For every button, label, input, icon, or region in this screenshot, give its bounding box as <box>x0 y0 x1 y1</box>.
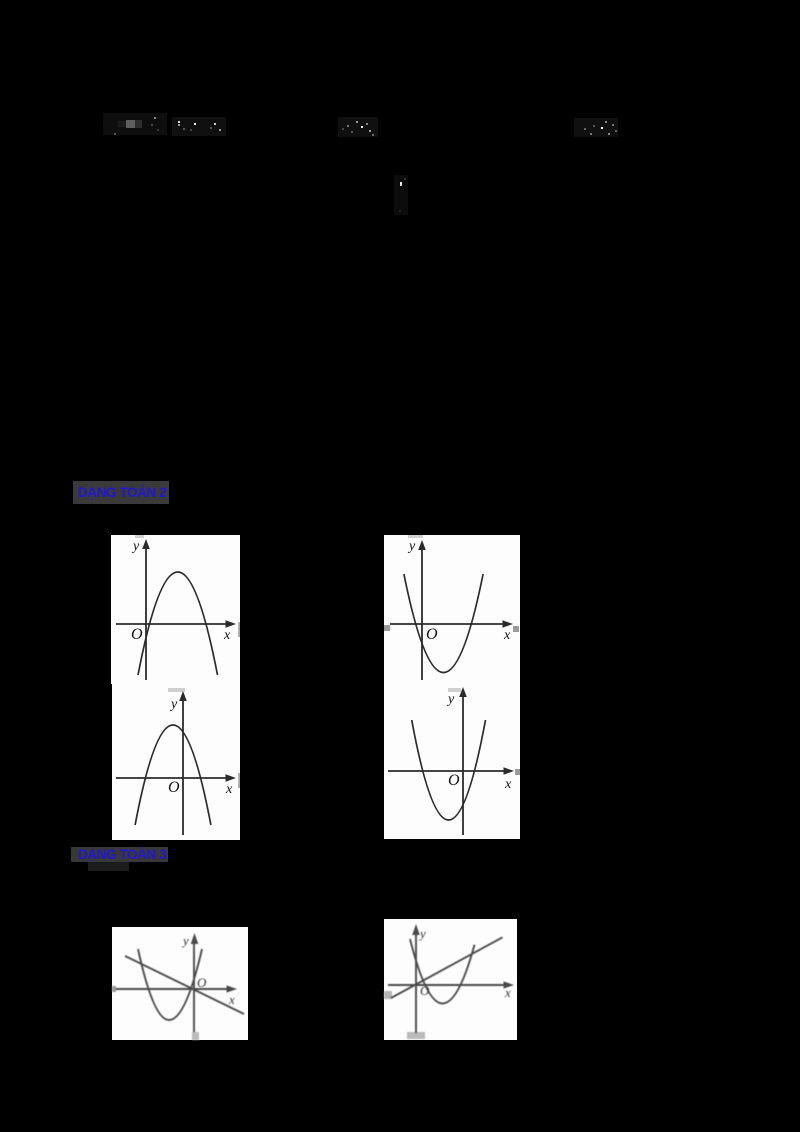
parabola opening up <box>410 939 475 1004</box>
svg-text:x: x <box>223 628 231 643</box>
svg-text:x: x <box>503 628 511 643</box>
fraction bright dots <box>400 182 402 184</box>
gray strip above y label <box>408 535 423 538</box>
gray strip above y label <box>168 688 185 692</box>
formula 2 dim smudge <box>338 117 378 137</box>
x-axis <box>116 777 228 779</box>
gray block bottom <box>192 1032 199 1040</box>
y-axis <box>145 544 147 680</box>
parabola opening down <box>138 572 218 675</box>
formula 1 dim smudge <box>103 113 167 135</box>
gray mark right <box>513 626 519 632</box>
x-axis <box>388 770 506 772</box>
right edge sliver <box>238 622 240 637</box>
graph box R1L <box>111 535 240 684</box>
formula 1 highlight block A <box>118 121 126 127</box>
svg-text:y: y <box>169 697 178 712</box>
parabola opening down <box>135 725 211 825</box>
svg-text:y: y <box>181 933 189 948</box>
svg-text:O: O <box>420 983 430 998</box>
graph box R1R <box>384 535 520 684</box>
formula 1 speckles <box>114 133 116 135</box>
y-axis <box>193 939 195 1032</box>
formula 2 speckles <box>347 125 349 127</box>
svg-text:O: O <box>131 626 143 643</box>
svg-text:O: O <box>197 975 207 990</box>
svg-text:y: y <box>418 926 426 941</box>
x-axis <box>116 623 228 625</box>
formula 3 speckles <box>584 128 586 130</box>
parabola opening up <box>404 574 483 673</box>
svg-text:O: O <box>448 772 460 789</box>
formula 1 highlight block B <box>126 120 135 128</box>
graph box R3L <box>112 927 248 1040</box>
y-axis <box>182 696 184 835</box>
x-axis <box>116 988 231 990</box>
y-axis <box>421 545 423 680</box>
right edge sliver <box>238 773 240 788</box>
svg-text:O: O <box>168 779 180 796</box>
y-axis <box>415 931 417 1033</box>
svg-text:y: y <box>131 539 140 554</box>
heading 1 block <box>73 481 169 504</box>
heading 2 text <box>78 846 166 863</box>
svg-text:O: O <box>426 626 438 643</box>
gray mark right edge <box>515 769 520 775</box>
svg-text:y: y <box>407 539 416 554</box>
graph box R3R <box>384 919 517 1040</box>
x-axis <box>390 623 505 625</box>
svg-text:x: x <box>225 782 233 797</box>
svg-text:x: x <box>504 985 511 1000</box>
descending line <box>125 956 244 1014</box>
formula 3 dim smudge <box>574 118 618 137</box>
ascending line <box>391 937 503 998</box>
fraction dim smudge <box>394 175 408 215</box>
svg-text:x: x <box>228 992 235 1007</box>
graph box R2L <box>112 684 240 840</box>
heading 2 block <box>71 847 168 862</box>
gray mark left edge on axis <box>112 986 116 992</box>
heading 2 sub-bar <box>88 862 129 871</box>
formula 1 highlight block C <box>135 120 142 128</box>
x-axis <box>388 984 507 986</box>
gray strip above y label <box>448 688 461 692</box>
gray block bottom <box>407 1032 425 1039</box>
graph box R2R <box>384 682 520 839</box>
gray mark left edge <box>384 991 392 999</box>
gray mark left edge <box>384 625 390 631</box>
parabola opening up <box>412 720 486 820</box>
gray strip above y label <box>135 535 144 538</box>
heading 1 text <box>78 484 166 502</box>
parabola opening up <box>138 949 202 1020</box>
svg-text:y: y <box>446 692 455 707</box>
svg-text:x: x <box>504 777 512 792</box>
y-axis <box>462 692 464 835</box>
